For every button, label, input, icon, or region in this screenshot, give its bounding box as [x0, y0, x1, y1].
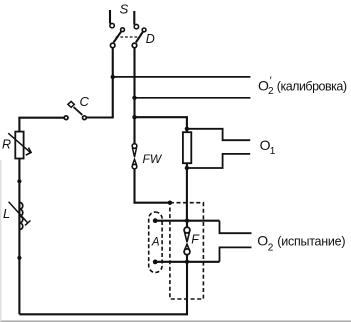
node shield connection	[168, 201, 172, 205]
svg-text:D: D	[146, 32, 155, 46]
inductor L (adjustable)	[9, 202, 31, 230]
arrester A top terminal	[153, 218, 158, 223]
fuse FW	[132, 144, 137, 169]
wire bottom return	[19, 262, 187, 315]
terminal line O2' upper	[113, 76, 251, 78]
switch C blade	[68, 101, 82, 115]
svg-text:FW: FW	[143, 152, 163, 166]
wire upper O2 line	[155, 220, 219, 222]
svg-text:2: 2	[268, 242, 274, 253]
switch S mechanical link	[116, 36, 139, 38]
svg-text:A: A	[151, 237, 160, 249]
switch S pole 1 pivot contact	[110, 43, 115, 48]
svg-text:(калибровка): (калибровка)	[277, 80, 347, 94]
svg-text:1: 1	[270, 146, 276, 157]
svg-text:F: F	[191, 233, 200, 247]
node O2' upper tap	[111, 75, 115, 79]
fuse F	[184, 221, 190, 262]
label O2 (испытание)	[257, 232, 345, 253]
switch S pole 2 fixed contact	[134, 11, 138, 29]
arrester A (dashed stadium)	[149, 212, 162, 273]
label O1	[260, 137, 276, 157]
terminal bracket O2 lower	[220, 247, 252, 261]
wire switch C to R	[19, 118, 64, 132]
wire lower O2 line	[155, 261, 219, 263]
wire pole1 down and over to switch C	[87, 48, 113, 118]
svg-text:2: 2	[268, 86, 274, 97]
switch S pole 1 blade	[114, 28, 125, 43]
svg-text:O: O	[257, 232, 268, 248]
resistor R (variable)	[8, 132, 31, 159]
wire O1 bottom down to F	[186, 168, 188, 221]
node O1 branch tap	[132, 115, 136, 119]
node F bottom	[185, 260, 189, 264]
switch C contacts	[64, 116, 86, 120]
node O1 top	[185, 127, 189, 131]
wire R down left side	[18, 159, 20, 315]
svg-text:R: R	[2, 137, 11, 151]
node F top	[185, 219, 189, 223]
svg-text:S: S	[120, 2, 129, 17]
wire pole2 down to FW	[133, 48, 135, 144]
shield (dashed box)	[170, 203, 204, 299]
switch S pole 2 pivot contact	[132, 43, 137, 48]
terminal bracket O2 upper	[220, 221, 252, 234]
label O2' (калибровка)	[258, 75, 347, 97]
terminal bracket O1 lower	[187, 154, 250, 168]
node	[17, 256, 21, 260]
wire branch to O1 divider	[135, 117, 187, 129]
terminal line O2' lower	[135, 97, 251, 99]
switch S pole 2 blade	[136, 28, 146, 42]
arrester A bottom terminal	[153, 260, 158, 265]
node	[17, 179, 21, 183]
switch S pole 1 fixed contact	[110, 10, 114, 28]
svg-text:L: L	[3, 206, 10, 221]
terminal bracket O1 upper	[187, 129, 250, 140]
node O2' lower tap	[132, 96, 136, 100]
wire FW to shield	[135, 169, 169, 203]
svg-text:C: C	[80, 94, 90, 109]
svg-text:(испытание): (испытание)	[277, 235, 345, 249]
resistor (O1 divider)	[183, 129, 191, 168]
svg-text:′: ′	[270, 75, 272, 87]
node O1 bottom	[185, 166, 189, 170]
